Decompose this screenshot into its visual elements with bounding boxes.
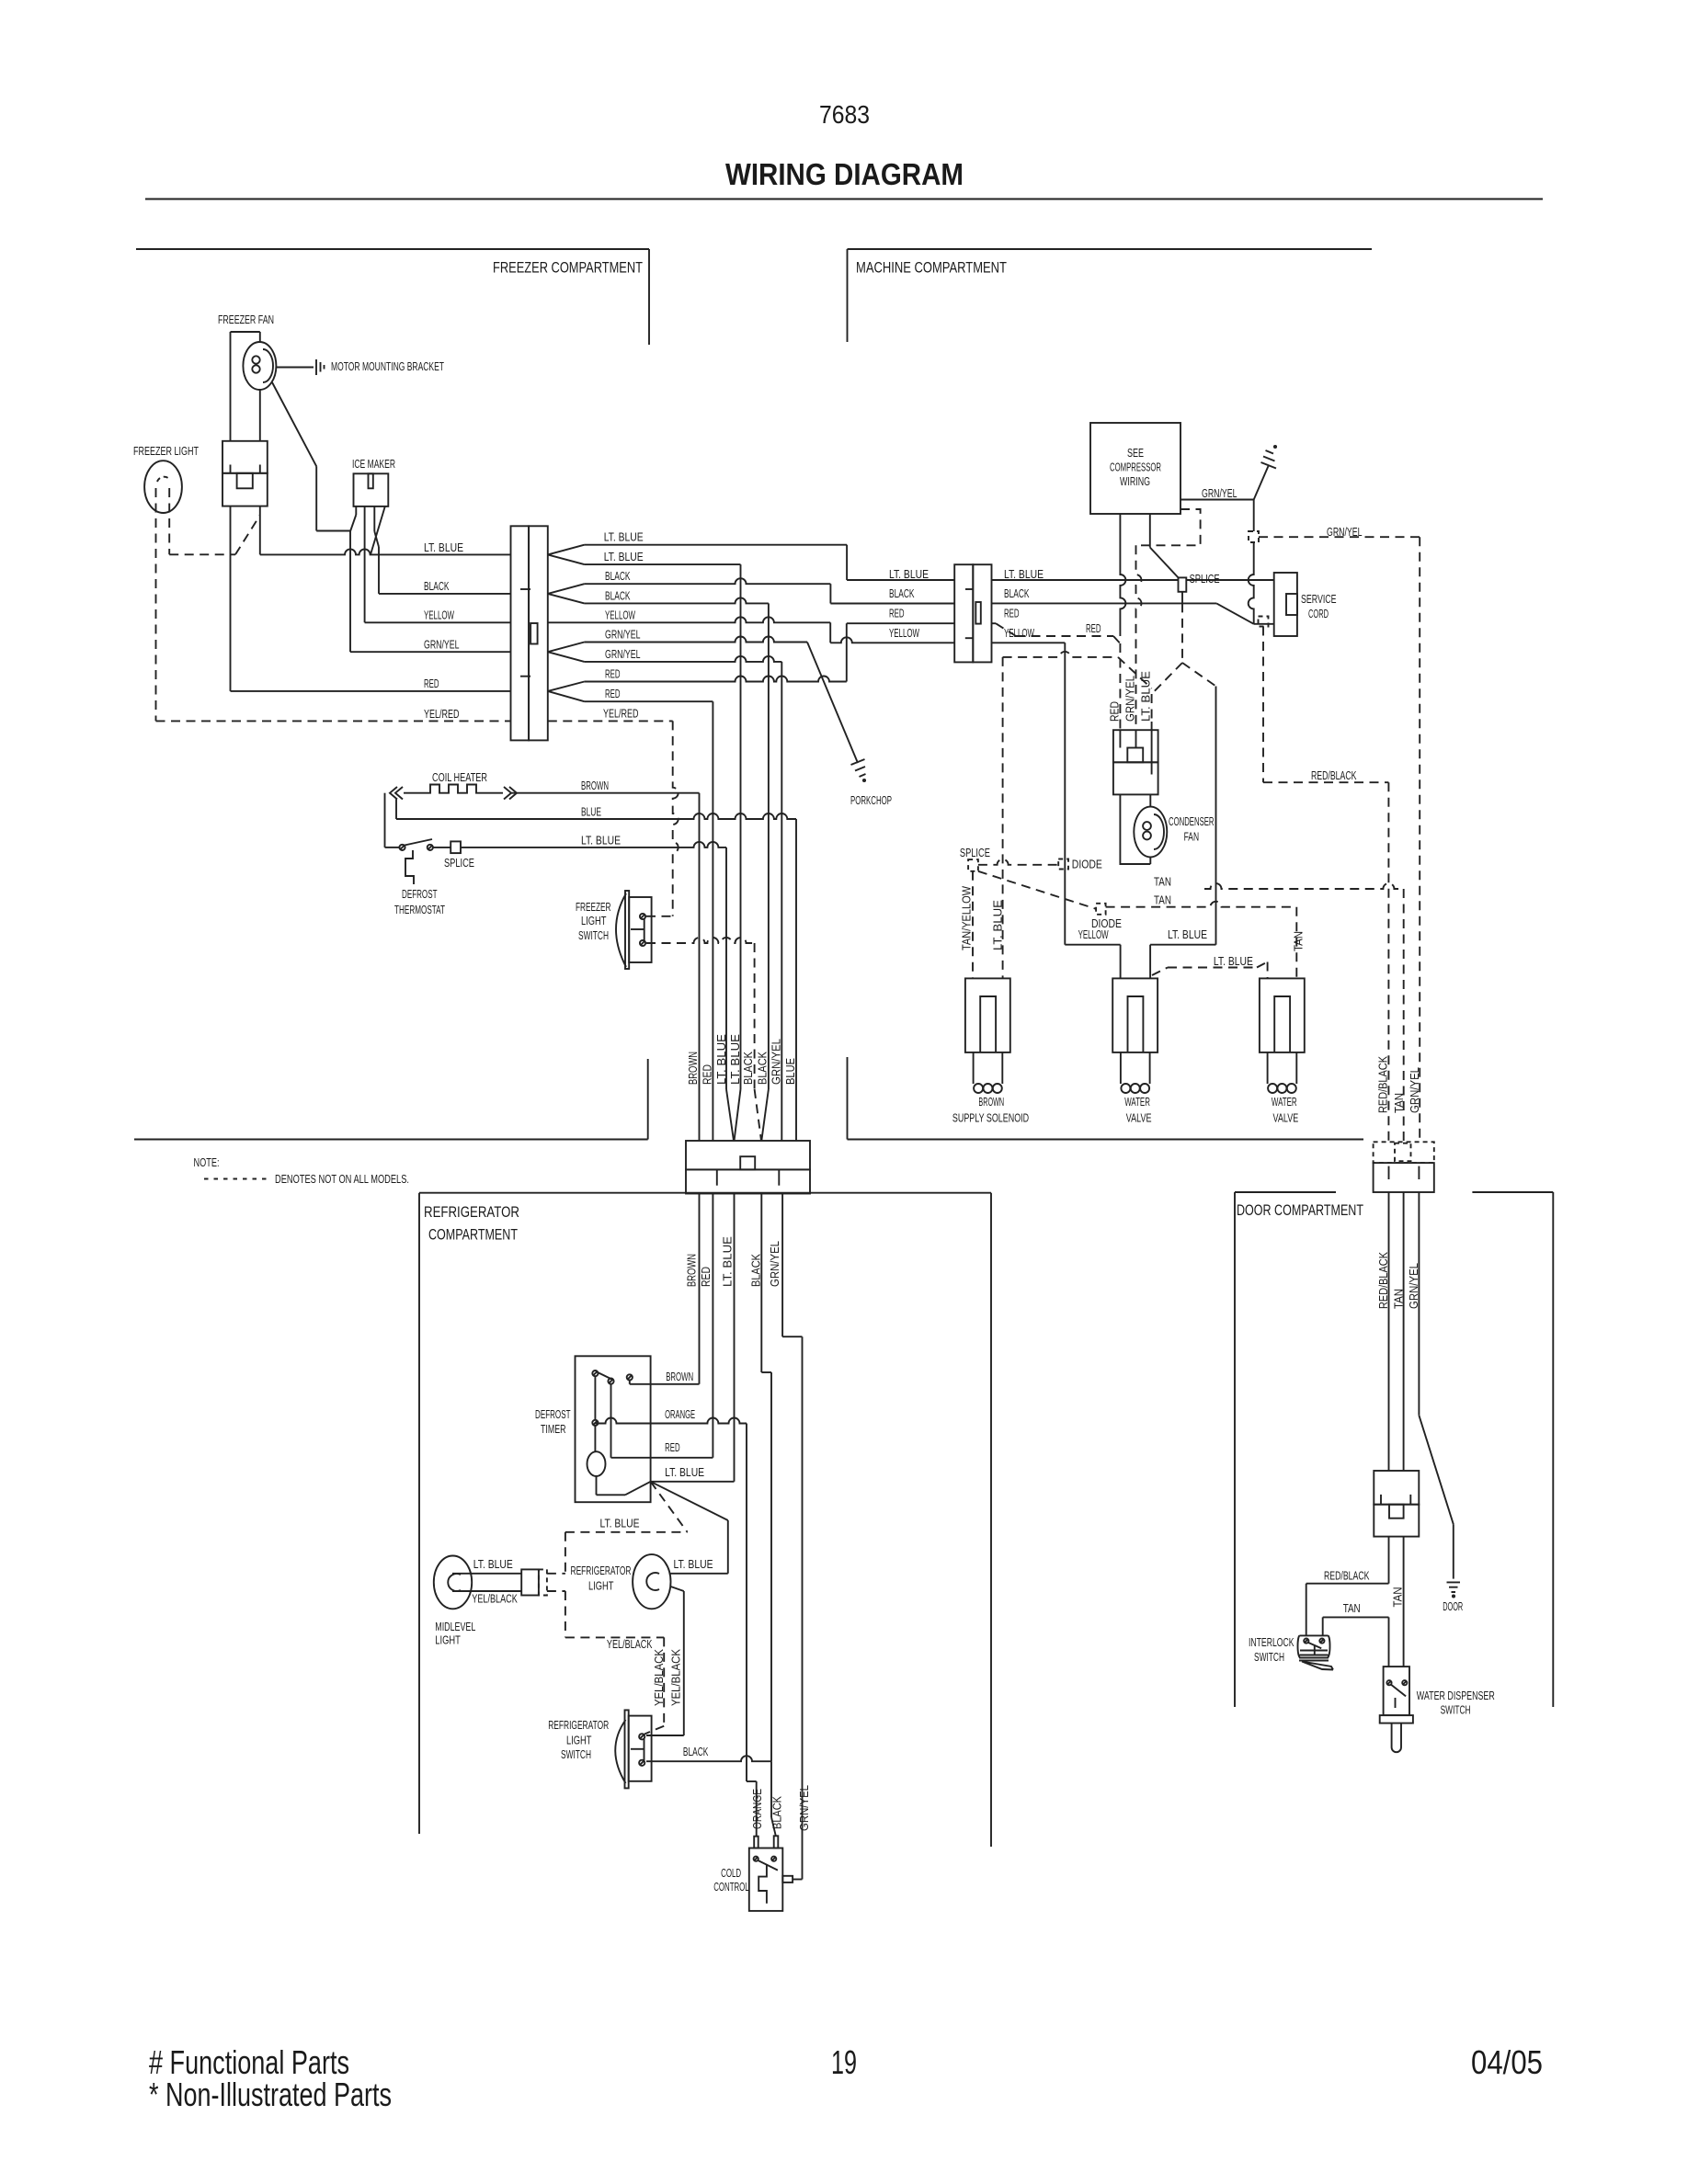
svg-text:RED: RED [699,1267,713,1287]
svg-text:RED/BLACK: RED/BLACK [1311,768,1357,782]
svg-text:BLACK: BLACK [770,1796,784,1829]
wire compressor right to splice [1149,514,1151,548]
svg-text:MACHINE COMPARTMENT: MACHINE COMPARTMENT [856,259,1007,277]
wire GRN/YEL dashed to door [1259,536,1420,538]
svg-text:LT. BLUE: LT. BLUE [889,567,929,581]
wire GRN/YEL from compressor to ground [1180,499,1254,501]
svg-text:BROWN: BROWN [685,1254,699,1287]
wire GRN/YEL freezer [350,651,511,653]
svg-text:RED: RED [605,667,621,681]
see compressor wiring box [1090,423,1180,514]
svg-text:YEL/BLACK: YEL/BLACK [669,1649,683,1706]
wire GRN/YEL from square to service cord [1249,542,1254,624]
svg-text:LT. BLUE: LT. BLUE [1214,954,1253,968]
freezer fan connector [222,441,268,473]
wire LT. BLUE timer to refrigerator light [651,1482,728,1520]
wire GRN/YEL to porkchop [585,637,807,643]
svg-text:BROWN: BROWN [666,1370,693,1383]
svg-text:SPLICE: SPLICE [960,846,990,859]
wire RED/BLACK in door [1388,1192,1390,1471]
wire BLACK vertical to switch [760,1194,762,1373]
wire YEL/RED freezer (dashed) [156,720,511,722]
compressor overload relay [1113,730,1158,762]
svg-text:YELLOW: YELLOW [424,609,454,622]
defrost timer box [576,1356,651,1502]
splice (water solenoid) [968,859,978,871]
svg-text:YELLOW: YELLOW [1004,626,1034,640]
connector flag BLACK pair [548,584,585,594]
midlevel light connector [452,1573,521,1575]
svg-text:COMPARTMENT: COMPARTMENT [428,1226,518,1244]
wire LT. BLUE dashed (timer to midlevel) [651,1482,688,1532]
svg-text:TAN: TAN [1154,875,1171,889]
svg-text:ICE MAKER: ICE MAKER [352,457,395,471]
freezer compartment bottom border [134,1139,648,1141]
svg-text:RED: RED [701,1064,714,1085]
BROWN SUPPLY SOLENOID coil [974,1084,983,1093]
svg-text:SWITCH: SWITCH [1254,1650,1284,1664]
svg-text:LIGHT: LIGHT [588,1579,614,1593]
wire GRN/YEL dashed loop to overload [1136,509,1201,545]
svg-text:BROWN: BROWN [581,779,609,792]
svg-text:ORANGE: ORANGE [750,1789,764,1829]
wire BLACK to service cord [992,602,1217,604]
interlock switch [1298,1635,1334,1669]
svg-text:RED/BLACK: RED/BLACK [1376,1056,1390,1113]
wire LT. BLUE to splice and service cord [992,579,1179,581]
svg-text:TAN/YELLOW: TAN/YELLOW [960,885,974,950]
svg-text:LT. BLUE: LT. BLUE [581,833,621,847]
svg-text:* Non-Illustrated Parts: * Non-Illustrated Parts [149,2076,392,2113]
svg-text:SWITCH: SWITCH [578,928,609,942]
svg-text:ORANGE: ORANGE [665,1407,695,1421]
wire TAN/YELLOW dashed from splice to valve 1 [972,871,974,979]
svg-text:GRN/YEL: GRN/YEL [424,638,460,652]
svg-text:DIODE: DIODE [1072,858,1102,871]
diode 2 [1096,904,1106,915]
svg-text:BLUE: BLUE [581,805,601,819]
wire GRN/YEL vertical to cold control [781,1194,783,1337]
svg-text:FREEZER COMPARTMENT: FREEZER COMPARTMENT [493,259,643,277]
porkchop ground diagonal [807,643,858,764]
svg-text:COMPRESSOR: COMPRESSOR [1110,461,1161,474]
svg-text:YEL/BLACK: YEL/BLACK [607,1637,653,1651]
svg-text:GRN/YEL: GRN/YEL [1202,486,1237,500]
svg-text:LT. BLUE: LT. BLUE [600,1517,640,1530]
connector flag LT. BLUE pair [548,545,585,555]
svg-text:INTERLOCK: INTERLOCK [1249,1635,1295,1649]
fan motor ground diagonal [272,382,316,466]
svg-text:DOOR COMPARTMENT: DOOR COMPARTMENT [1237,1201,1363,1219]
splice on LT. BLUE [433,847,451,848]
svg-text:LT. BLUE: LT. BLUE [721,1236,735,1287]
svg-text:CONDENSER: CONDENSER [1169,814,1215,828]
wire GRN/YEL in door [1418,1192,1420,1416]
refrigerator compartment border [419,1192,991,1194]
splice dashed square at service cord [1259,617,1269,627]
wire BLACK down to refrigerator [585,597,769,603]
svg-text:LIGHT: LIGHT [581,914,607,927]
wire GRN/YEL solid down to splice square [1253,500,1255,532]
wire LT. BLUE dashed diagonal to valve feed [1182,663,1216,687]
wire RED/BLACK dashed to door [1262,627,1264,783]
connector flag GRN/YEL pair [548,643,585,653]
svg-text:MOTOR MOUNTING BRACKET: MOTOR MOUNTING BRACKET [331,359,444,373]
svg-text:RED: RED [605,687,621,700]
svg-text:LT. BLUE: LT. BLUE [424,540,463,554]
wire LT. BLUE solid down to valve 2 [1215,687,1217,945]
svg-text:WIRING DIAGRAM: WIRING DIAGRAM [725,157,964,191]
svg-text:LT. BLUE: LT. BLUE [991,900,1005,950]
machine compartment connector [954,564,973,662]
svg-text:SPLICE: SPLICE [444,856,474,870]
svg-text:BLACK: BLACK [424,579,450,593]
svg-text:GRN/YEL: GRN/YEL [769,1039,782,1085]
svg-text:REFRIGERATOR: REFRIGERATOR [424,1203,519,1221]
svg-text:SWITCH: SWITCH [1441,1703,1471,1717]
freezer wall connector [511,526,530,740]
svg-text:YELLOW: YELLOW [889,626,919,640]
wire LT. BLUE to refrigerator [461,842,726,847]
svg-text:LT. BLUE: LT. BLUE [473,1557,513,1571]
wire dashed midlevel to refrigerator circuits [547,1573,565,1575]
ice maker pin 2 [364,506,366,622]
svg-text:FREEZER: FREEZER [576,900,611,914]
svg-text:SEE: SEE [1127,446,1144,460]
svg-text:THERMOSTAT: THERMOSTAT [394,903,445,916]
svg-text:WATER DISPENSER: WATER DISPENSER [1417,1689,1495,1702]
wire LT. BLUE freezer [260,549,511,554]
svg-text:GRN/YEL: GRN/YEL [605,628,641,642]
connector flag RED pair [548,682,585,691]
refrigerator wall connector [686,1141,810,1169]
wire dashed splice to diode [978,859,1058,865]
svg-text:LT. BLUE: LT. BLUE [604,550,644,563]
ground at compressor [1254,466,1269,500]
svg-text:CONTROL: CONTROL [713,1880,749,1894]
wire YELLOW to machine compartment [548,617,830,622]
svg-text:LT. BLUE: LT. BLUE [1168,927,1207,941]
WATER VALVE valve body [1260,978,1305,1052]
wire TAN in door [1403,1192,1405,1471]
svg-text:REFRIGERATOR: REFRIGERATOR [571,1564,632,1577]
svg-text:7683: 7683 [819,100,870,129]
svg-text:GRN/YEL: GRN/YEL [1407,1263,1420,1309]
grn/yel dashed square [1249,531,1259,542]
svg-text:BLACK: BLACK [605,569,631,583]
BROWN SUPPLY SOLENOID valve body [965,978,1010,1052]
svg-text:TAN: TAN [1343,1601,1361,1615]
svg-text:TAN: TAN [1392,1093,1406,1113]
svg-text:FAN: FAN [1184,830,1200,844]
refrigerator light [633,1554,670,1609]
svg-text:TAN: TAN [1154,893,1171,907]
motor mounting bracket [277,367,314,369]
wire RED dashed to compressor overload [992,622,997,624]
svg-text:LT. BLUE: LT. BLUE [665,1465,704,1479]
svg-text:YEL/RED: YEL/RED [603,706,639,720]
wire BLACK dashed vertical [754,943,756,1089]
svg-text:REFRIGERATOR: REFRIGERATOR [548,1718,609,1732]
wire BLACK from switch [646,1756,771,1761]
splice [1179,577,1187,591]
wire YELLOW freezer [365,621,511,623]
svg-text:LT. BLUE: LT. BLUE [714,1034,728,1085]
svg-text:BLACK: BLACK [756,1052,770,1085]
svg-text:GRN/YEL: GRN/YEL [1327,525,1363,539]
service cord [1274,573,1297,636]
svg-text:MIDLEVEL: MIDLEVEL [435,1620,475,1633]
svg-text:LT. BLUE: LT. BLUE [604,530,644,544]
wire BROWN coil heater [511,792,700,794]
svg-text:YEL/RED: YEL/RED [424,707,460,721]
freezer compartment border [136,248,649,250]
svg-text:DOOR: DOOR [1443,1599,1463,1613]
svg-text:CORD: CORD [1308,607,1329,620]
midlevel light [434,1556,472,1610]
condenser fan [1149,794,1151,807]
wire BLUE coil heater [395,800,397,820]
wire ORANGE from timer [595,1418,747,1424]
wire RED freezer [230,506,232,691]
wire BLUE vertical [795,819,797,1141]
svg-text:RED: RED [1004,607,1020,620]
svg-text:GRN/YEL: GRN/YEL [1123,676,1136,722]
water dispenser switch [1384,1666,1409,1715]
wire LT. BLUE dashed from splice to overload [1181,603,1183,663]
svg-text:BLACK: BLACK [1004,586,1030,600]
machine compartment bottom border [848,1139,1364,1141]
svg-text:BLACK: BLACK [749,1254,763,1287]
svg-text:COLD: COLD [721,1866,741,1880]
wire freezer light to fan plug (dashed) [169,553,235,555]
wire LT. BLUE from timer [651,1481,735,1483]
svg-text:LIGHT: LIGHT [435,1633,461,1647]
wire RED down to refrigerator [585,700,713,702]
refrigerator light switch [625,1710,629,1788]
svg-text:YEL/BLACK: YEL/BLACK [472,1592,518,1606]
wire GRN/YEL vertical [781,662,782,1141]
wire LT. BLUE down to refrigerator [585,563,741,565]
svg-text:LT. BLUE: LT. BLUE [728,1034,742,1085]
svg-text:BROWN: BROWN [978,1095,1004,1109]
wire LT. BLUE to machine compartment [585,544,848,546]
svg-text:PORKCHOP: PORKCHOP [850,793,892,807]
svg-text:TAN: TAN [1292,931,1306,951]
wire RED to machine compartment [585,677,847,682]
wire BROWN vertical [699,793,701,1141]
svg-text:SERVICE: SERVICE [1301,592,1337,606]
svg-text:GRN/YEL: GRN/YEL [1408,1067,1421,1113]
ice maker pin 4 diagonal [371,506,385,555]
svg-text:RED: RED [1086,621,1101,635]
cold control [747,1780,757,1782]
door ground [1453,1524,1454,1578]
wire BLACK to machine compartment [585,578,831,584]
svg-text:BLUE: BLUE [783,1058,797,1085]
wire BLACK freezer [379,593,511,595]
wire RED from timer [611,1457,713,1459]
freezer light switch [625,891,629,969]
WATER VALVE valve body [1112,978,1158,1052]
svg-text:RED/BLACK: RED/BLACK [1324,1569,1370,1583]
svg-text:BLACK: BLACK [889,586,915,600]
svg-text:GRN/YEL: GRN/YEL [797,1785,811,1831]
svg-text:DEFROST: DEFROST [402,887,438,901]
svg-text:BLACK: BLACK [683,1745,709,1758]
svg-text:RED: RED [1107,701,1121,722]
title rule [145,199,1543,200]
svg-text:WATER: WATER [1124,1095,1150,1109]
svg-text:RED: RED [665,1440,680,1454]
wire compressor left down to overload [1120,514,1125,636]
wire RED/BLACK to interlock [1388,1537,1390,1584]
svg-text:BROWN: BROWN [686,1052,700,1085]
wire YEL/RED dashed to freezer light switch [548,720,673,722]
svg-text:LT. BLUE: LT. BLUE [1004,567,1044,581]
svg-text:BLACK: BLACK [605,588,631,602]
svg-text:TAN: TAN [1391,1587,1405,1608]
svg-text:VALVE: VALVE [1126,1111,1152,1125]
svg-text:TAN: TAN [1391,1289,1405,1309]
ice maker pin 3 [373,506,375,531]
wire LT. BLUE defrost thermostat [384,793,386,847]
svg-text:WIRING: WIRING [1120,474,1150,488]
wire TAN interlock to water dispenser [1322,1617,1324,1635]
svg-text:04/05: 04/05 [1471,2043,1543,2081]
svg-text:YELLOW: YELLOW [605,608,635,621]
svg-text:NOTE:: NOTE: [194,1155,220,1169]
svg-text:YEL/BLACK: YEL/BLACK [652,1649,666,1706]
svg-text:SPLICE: SPLICE [1190,572,1220,586]
wire LT. BLUE vertical (from splice) [725,847,727,1089]
defrost timer contacts [592,1371,598,1376]
svg-text:SWITCH: SWITCH [561,1747,591,1761]
porkchop ground symbol [851,759,866,777]
machine compartment border [848,248,1373,250]
svg-text:RED: RED [424,677,439,690]
svg-text:GRN/YEL: GRN/YEL [605,647,641,661]
wire YEL/BLACK from refrigerator light [671,1587,684,1591]
ice maker pin 1 [355,506,357,515]
svg-text:SUPPLY SOLENOID: SUPPLY SOLENOID [952,1111,1029,1125]
svg-text:LT. BLUE: LT. BLUE [674,1557,713,1571]
svg-text:FREEZER FAN: FREEZER FAN [218,313,274,326]
wire dashed splice diagonal to diode 2 [978,871,1096,909]
svg-text:19: 19 [831,2043,857,2081]
wire dashed from water valve 1 right pin [1002,657,1004,979]
WATER VALVE coil [1121,1084,1130,1093]
svg-text:BLACK: BLACK [741,1052,755,1085]
wire GRN/YEL down to refrigerator [585,656,782,662]
svg-text:TIMER: TIMER [541,1422,566,1436]
wire LT. BLUE dashed valve2 to valve3 [1152,968,1168,976]
svg-text:WATER: WATER [1272,1095,1297,1109]
diode 1 [1058,859,1068,870]
door connector upper [1374,1142,1434,1163]
wire LT. BLUE vertical (from connector) [740,564,742,1089]
wire BROWN from timer [629,1381,631,1384]
wire BLACK vertical [768,603,770,1089]
wire TAN dashed from diode 2 to valve 3 [1106,902,1297,907]
defrost thermostat [399,845,405,850]
wire RED vertical [712,701,713,1141]
svg-text:DENOTES NOT ON ALL MODELS.: DENOTES NOT ON ALL MODELS. [275,1172,409,1186]
wire TAN dashed to door (upper) [1204,883,1404,889]
wire BLACK dashed from freezer light switch [646,938,755,943]
defrost timer motor [594,1426,596,1451]
svg-text:FREEZER LIGHT: FREEZER LIGHT [133,444,199,458]
svg-text:DEFROST: DEFROST [535,1407,571,1421]
door plug connector [1374,1471,1419,1505]
svg-text:LIGHT: LIGHT [566,1734,592,1747]
svg-text:RED: RED [889,607,905,620]
door compartment border [1235,1191,1336,1193]
svg-text:DIODE: DIODE [1091,916,1122,930]
svg-text:COIL HEATER: COIL HEATER [432,770,487,784]
svg-text:VALVE: VALVE [1273,1111,1299,1125]
svg-text:GRN/YEL: GRN/YEL [768,1241,781,1287]
WATER VALVE coil [1268,1084,1277,1093]
wire TAN to water dispenser [1403,1537,1405,1667]
svg-text:RED/BLACK: RED/BLACK [1376,1252,1390,1309]
wire YELLOW to diode and water valve [992,642,1066,643]
